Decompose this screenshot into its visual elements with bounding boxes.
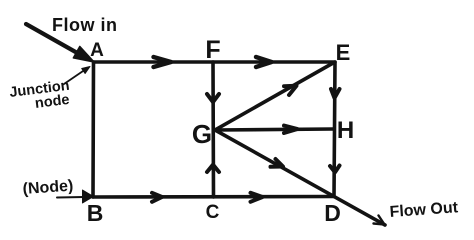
- wire G-E (diagonal): [215, 63, 334, 131]
- wire A-B (left edge): [91, 62, 95, 197]
- svg-text:C: C: [206, 202, 220, 223]
- arrow A to F: [154, 57, 172, 67]
- arrow H to D: [330, 166, 340, 173]
- wire F-G-C (middle vertical): [211, 62, 215, 197]
- wire E-H-D (right edge): [334, 62, 335, 196]
- svg-text:Flow in: Flow in: [52, 15, 118, 35]
- svg-text:D: D: [324, 200, 341, 226]
- wire G-H (horizontal): [215, 129, 333, 130]
- arrow F to G: [207, 94, 219, 102]
- svg-text:node: node: [34, 92, 70, 112]
- junction-node pointer arrow: [64, 69, 86, 84]
- wire A-F-E (top edge): [94, 60, 335, 64]
- svg-text:F: F: [205, 36, 220, 64]
- svg-text:(Node): (Node): [22, 177, 74, 197]
- svg-text:E: E: [336, 40, 351, 65]
- svg-text:B: B: [87, 200, 104, 226]
- svg-text:G: G: [192, 119, 212, 149]
- arrow C to G: [207, 165, 219, 172]
- arrow G to H: [284, 126, 298, 134]
- svg-text:A: A: [90, 40, 104, 61]
- wire G-D and flow-out line: [215, 130, 385, 225]
- flow-in arrow: [26, 24, 80, 55]
- svg-text:Flow Out: Flow Out: [389, 199, 459, 221]
- arrow G to E: [284, 86, 297, 95]
- arrow C to D: [251, 193, 263, 202]
- arrow F to E: [256, 57, 272, 67]
- node-pointer arrow at B: [57, 196, 84, 199]
- flow-out arrowhead: [374, 216, 385, 225]
- arrow E to H: [331, 89, 340, 98]
- svg-text:H: H: [337, 117, 354, 144]
- label Junction node: [9, 78, 73, 115]
- wire B-C-D (bottom edge): [93, 195, 334, 199]
- arrow B to C: [152, 193, 162, 202]
- arrow G to D: [271, 159, 284, 167]
